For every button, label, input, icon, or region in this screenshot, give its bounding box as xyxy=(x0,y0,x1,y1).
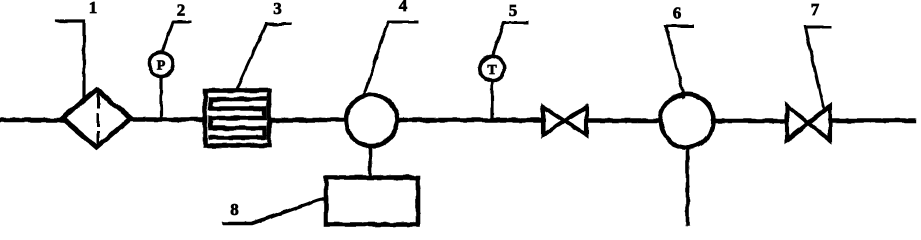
leader line 8 xyxy=(224,200,327,224)
drive unit box 8 xyxy=(326,178,418,225)
wire: pipe between valve and pump 6 xyxy=(586,118,662,122)
pump U4 (circle) xyxy=(346,95,397,146)
wire: pump 4 to drive box 8 xyxy=(369,146,373,178)
svg-text:8: 8 xyxy=(230,200,239,219)
wire: pipe between pump 6 and valve 7 xyxy=(712,119,788,123)
leader line 5 xyxy=(493,23,528,56)
svg-text:7: 7 xyxy=(811,0,820,19)
wire: pipe between pump 4 and valve xyxy=(396,118,544,122)
temperature gauge T xyxy=(480,56,504,120)
leader line 2 xyxy=(162,22,190,52)
svg-text:6: 6 xyxy=(673,4,682,23)
svg-text:1: 1 xyxy=(89,0,98,17)
wire: drain below pump 6 xyxy=(686,147,690,224)
valve V7 (bowtie) xyxy=(787,106,830,141)
leader line 1 xyxy=(57,21,84,100)
pump U6 (circle) xyxy=(661,94,714,147)
leader line 4 xyxy=(365,22,418,93)
filter F1 (diamond) xyxy=(63,90,131,148)
svg-text:T: T xyxy=(487,63,497,78)
svg-text:2: 2 xyxy=(177,1,186,20)
svg-text:5: 5 xyxy=(509,1,518,20)
leader line 6 xyxy=(666,26,693,97)
wire: pipe between filter and heat exchanger xyxy=(130,117,205,121)
wire: main pipe segment left of filter xyxy=(1,118,64,122)
pressure gauge P xyxy=(149,52,173,120)
svg-text:P: P xyxy=(157,59,166,74)
wire: pipe right of valve 7 xyxy=(829,118,914,122)
leader line 3 xyxy=(237,24,290,88)
svg-text:4: 4 xyxy=(399,0,408,15)
valve V1 (bowtie) xyxy=(543,107,587,135)
wire: pipe between heat exchanger and pump 4 xyxy=(269,118,347,122)
svg-text:3: 3 xyxy=(273,0,282,18)
leader line 7 xyxy=(805,27,830,110)
heat exchanger HX (box with coil) xyxy=(205,91,269,146)
